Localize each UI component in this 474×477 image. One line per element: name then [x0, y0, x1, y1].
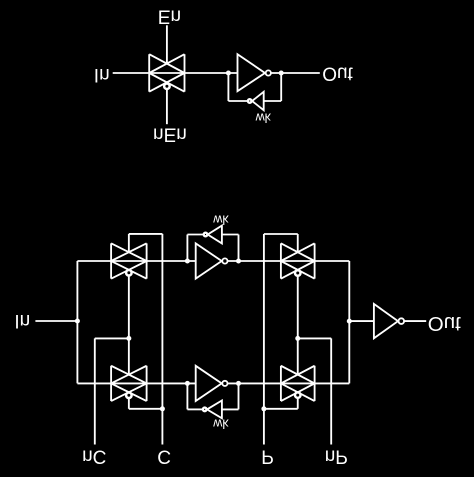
wire U6 feedback right vertical: [238, 383, 240, 409]
wire merge vertical: [348, 261, 350, 383]
wire TG4 control to P line: [264, 233, 298, 235]
wire U7 output to Out: [404, 320, 426, 322]
node dot U5 input junction: [185, 381, 190, 386]
bubble U5 output: [222, 381, 227, 386]
wire feedback bottom left segment: [228, 100, 247, 102]
wire nP horizontal: [298, 337, 331, 339]
node dot C line junction: [160, 406, 165, 411]
node dot U5 output junction: [236, 381, 241, 386]
wire TG4 top control vertical: [297, 234, 299, 252]
wire left inter-gate control vertical (nC): [128, 276, 130, 375]
inverter U5: [196, 366, 222, 401]
svg-text:nC: nC: [82, 445, 106, 466]
wire TG2 top control vertical: [128, 234, 130, 252]
bubble on TG3 C control: [126, 393, 132, 399]
wire In to transmission gate TG1 and inverter U1 input: [113, 72, 238, 74]
wire TG5 bubble to P line: [264, 408, 298, 410]
node dot U3 input junction: [185, 259, 190, 264]
inverter U7: [374, 304, 398, 338]
wire nC horizontal: [95, 337, 129, 339]
svg-text:Out: Out: [322, 63, 353, 84]
wire nC line vertical: [94, 338, 96, 444]
node dot output merge junction: [347, 319, 352, 324]
label wk for U2 (flipped text): [255, 110, 272, 124]
wire bottom branch into TG3 and U5: [77, 382, 195, 384]
label Out (net Out, flipped text): [322, 63, 353, 84]
bubble on TG4 nP control: [295, 270, 301, 276]
wire feedback bottom right segment: [264, 100, 282, 102]
transmission gate TG1: [149, 54, 184, 91]
transmission gate TG4 (clock P / nP, top): [281, 243, 315, 278]
wire TG3 bubble to C line: [129, 408, 163, 410]
svg-text:wk: wk: [212, 417, 229, 431]
wire En control vertical: [166, 25, 168, 63]
wire U4 feedback top right segment: [222, 234, 239, 236]
wire feedback right vertical: [280, 73, 282, 101]
bubble U7 output: [399, 318, 405, 324]
node dot U3 output junction: [236, 259, 241, 264]
wire C line vertical: [161, 234, 163, 445]
node dot P line junction: [261, 406, 266, 411]
svg-text:C: C: [157, 445, 171, 466]
node dot U1 input junction: [226, 71, 231, 76]
label nEn (net nEn, flipped text): [153, 124, 187, 145]
label En (net En, flipped text): [158, 6, 181, 27]
wire TG5 bubble stub vertical: [297, 398, 299, 409]
wire U4 feedback left vertical: [186, 235, 188, 262]
svg-text:nEn: nEn: [153, 124, 187, 145]
wire In branch vertical: [76, 261, 78, 383]
bubble U2 output: [248, 99, 252, 103]
wire TG2 control to C line: [129, 233, 163, 235]
wire right inter-gate control vertical (nP): [297, 276, 299, 375]
wire nP line vertical: [330, 338, 332, 444]
wire U1 output to Out: [271, 72, 320, 74]
wire feedback left vertical: [227, 73, 229, 101]
wire top branch into TG2 and U3: [77, 260, 195, 262]
node dot U1 output junction: [279, 71, 284, 76]
label In (net In, flipped text): [94, 64, 110, 85]
bubble on TG5 P control: [295, 392, 301, 398]
svg-text:P: P: [261, 446, 274, 467]
weak inverter U2 (wk): [252, 92, 264, 110]
wire nEn control vertical: [166, 90, 168, 124]
weak inverter U4 (wk): [208, 226, 222, 244]
inverter U1: [238, 54, 266, 91]
wire U6 feedback bottom left segment: [187, 408, 202, 410]
transmission gate TG3 (clock nC / C, bottom): [111, 366, 147, 401]
inverter U3: [196, 243, 222, 278]
svg-text:En: En: [158, 6, 181, 27]
node dot nC control junction: [126, 336, 131, 341]
svg-text:Out: Out: [428, 312, 461, 335]
wire P line vertical: [263, 234, 265, 445]
svg-text:wk: wk: [212, 213, 229, 227]
svg-text:wk: wk: [255, 110, 272, 124]
bubble U1 output: [266, 70, 271, 75]
wire U6 feedback left vertical: [186, 383, 188, 409]
label nP (net nP, flipped text): [325, 445, 348, 466]
label P (net P, flipped text): [261, 446, 274, 467]
wire U5 output to TG5 and merge: [228, 382, 349, 384]
transmission gate TG2 (clock C / nC, top): [111, 243, 147, 278]
label C (net C, flipped text): [157, 445, 171, 466]
svg-text:In: In: [94, 64, 110, 85]
label Out (net Out, flipped text): [428, 312, 461, 335]
svg-text:In: In: [14, 310, 30, 331]
transmission gate TG5 (clock nP / P, bottom): [281, 366, 315, 401]
svg-text:nP: nP: [325, 445, 348, 466]
label wk for U4 (flipped text): [212, 213, 229, 227]
weak inverter U6 (wk): [207, 401, 222, 419]
label nC (net nC, flipped text): [82, 445, 106, 466]
wire TG3 bubble stub vertical: [128, 398, 130, 409]
node dot nP control junction: [295, 336, 300, 341]
wire U3 output to TG4 and merge: [228, 260, 349, 262]
bubble U4 output: [204, 233, 208, 237]
bubble U3 output: [222, 258, 227, 263]
wire In to branch junction: [35, 320, 77, 322]
wire merge to inverter U7: [349, 320, 374, 322]
bubble on TG1 nEn control: [164, 83, 170, 89]
label In (net In, flipped text): [14, 310, 30, 331]
bubble U6 output: [203, 408, 207, 412]
wire U6 feedback bottom right segment: [222, 408, 239, 410]
bubble on TG2 nC control: [126, 270, 132, 276]
wire U4 feedback right vertical: [238, 235, 240, 262]
wire U4 feedback top left segment: [187, 234, 203, 236]
label wk for U6 (flipped text): [212, 417, 229, 431]
node dot In branch junction: [75, 319, 80, 324]
